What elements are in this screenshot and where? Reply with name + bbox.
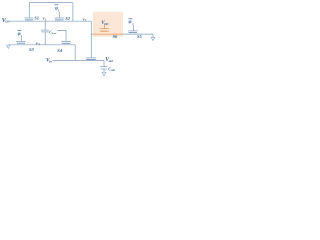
svg-text:S3: S3 bbox=[29, 47, 35, 52]
wire: S4 gate wire from cap top bbox=[57, 31, 66, 42]
ground arrow left bbox=[7, 45, 11, 48]
wire: Vout lead down bbox=[103, 61, 105, 67]
wire: rail drop to node v2 line bbox=[72, 3, 74, 22]
wire: gate node vertical bbox=[90, 21, 92, 58]
wire: Cout to ground bbox=[103, 69, 105, 72]
svg-text:S6: S6 bbox=[113, 34, 118, 39]
wire: S1 gate stem bbox=[28, 3, 30, 18]
capacitor Cboot top lead bbox=[44, 21, 46, 30]
transistor S5 bbox=[128, 30, 138, 32]
wire: box to S5 bbox=[123, 33, 153, 35]
wire: S2 gate stem bbox=[58, 12, 60, 18]
svg-text:DD: DD bbox=[103, 22, 109, 26]
svg-text:φ: φ bbox=[129, 19, 132, 25]
transistor S2 bbox=[54, 17, 64, 19]
phi1 control of S2 bbox=[54, 4, 58, 6]
svg-text:out: out bbox=[109, 59, 115, 63]
svg-text:boot: boot bbox=[52, 32, 57, 35]
ground arrow right bbox=[151, 37, 155, 40]
svg-text:S4: S4 bbox=[57, 48, 63, 53]
svg-text:in: in bbox=[49, 59, 52, 63]
capacitor Cboot bbox=[41, 29, 49, 31]
wire: S5 gate stem bbox=[132, 25, 134, 31]
svg-text:out: out bbox=[111, 69, 115, 72]
wire: main top wire VDD to corner bbox=[10, 20, 92, 22]
wire: S3 gate stem bbox=[20, 37, 22, 42]
ground arrow under Cout bbox=[102, 72, 106, 76]
wire: row drop to Vin line bbox=[74, 45, 76, 61]
capacitor Cboot bottom lead bbox=[44, 32, 46, 45]
phi1 control of S3 overbar bbox=[17, 30, 21, 32]
svg-text:1: 1 bbox=[21, 35, 23, 38]
svg-text:1: 1 bbox=[132, 23, 134, 26]
svg-text:S5: S5 bbox=[137, 34, 143, 39]
transistor S4 bbox=[61, 41, 71, 43]
svg-text:S2: S2 bbox=[65, 16, 71, 21]
transistor S6 cascode (orange) bbox=[93, 25, 123, 34]
transistor S1 bbox=[25, 17, 34, 19]
transistor M1 main switch bbox=[86, 57, 97, 59]
wire: bottom-plate row bbox=[8, 44, 75, 46]
svg-text:S1: S1 bbox=[34, 15, 39, 20]
wire: Vin bottom wire bbox=[53, 60, 104, 62]
highlight box (orange) bbox=[93, 12, 123, 37]
wire: gate node branch to box bbox=[91, 33, 93, 35]
svg-text:DD: DD bbox=[4, 19, 10, 23]
capacitor Cout bbox=[100, 66, 107, 68]
wire: top rail bbox=[29, 2, 73, 4]
wire: S5 to ground bbox=[152, 34, 154, 37]
svg-text:3: 3 bbox=[37, 42, 40, 46]
phi1 control of S5 overbar bbox=[128, 18, 132, 20]
svg-text:1: 1 bbox=[45, 17, 47, 21]
transistor S3 bbox=[16, 40, 25, 42]
